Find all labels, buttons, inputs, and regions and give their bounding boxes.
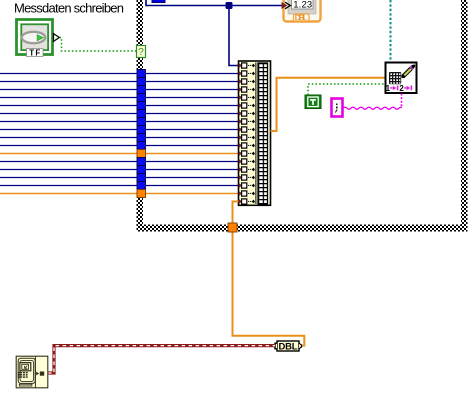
string wire vertical dashes: [401, 94, 403, 108]
blue I32 wire 2 from left edge through tunnel to build array: [0, 81, 239, 83]
TF output terminal arrow: [54, 34, 60, 42]
build array input row 18: [239, 199, 255, 204]
build array input row 5: [239, 95, 255, 100]
build array input row 13: [239, 159, 255, 164]
blue tunnel 8 on left loop border: [137, 126, 146, 134]
blue I32 wire 6 from left edge through tunnel to build array: [0, 113, 239, 115]
build array input row 12: [239, 151, 255, 156]
blue tunnel 3 on left loop border: [137, 86, 146, 94]
build array input row 4: [239, 87, 255, 92]
build array input row 10: [239, 135, 255, 140]
svg-text:1: 1: [386, 84, 391, 93]
svg-text:1.23: 1.23: [293, 0, 312, 11]
while loop left border: [137, 0, 144, 232]
blue I32 wire 15 from left edge through tunnel to build array: [0, 185, 239, 187]
build array node: [239, 61, 271, 205]
blue I32 wire 12 from left edge through tunnel to build array: [0, 161, 239, 163]
build array input row 9: [239, 127, 255, 132]
blue I32 wire 10 from left edge through tunnel to build array: [0, 145, 239, 147]
navy branch wire to build array row 1: [229, 6, 239, 66]
blue tunnel 14 on left loop border: [137, 174, 146, 182]
blue I32 wire 5 from left edge through tunnel to build array: [0, 105, 239, 107]
string wire (pink squiggle): [343, 107, 402, 109]
orange tunnel on bottom border: [228, 223, 237, 232]
svg-text:?: ?: [138, 47, 144, 58]
blue tunnel 2 on left loop border: [137, 78, 146, 86]
blue tunnel 15 on left loop border: [137, 182, 146, 190]
blue tunnel 6 on left loop border: [137, 110, 146, 118]
numeric indicator 1.23 DBL: [282, 0, 321, 23]
blue tunnel 7 on left loop border: [137, 118, 146, 126]
orange tunnel 16 on left loop border: [137, 190, 146, 198]
build array input row 6: [239, 103, 255, 108]
build array input row 15: [239, 175, 255, 180]
svg-text:TF: TF: [29, 48, 40, 57]
svg-text:DBL: DBL: [279, 341, 298, 352]
blue I32 wire 8 from left edge through tunnel to build array: [0, 129, 239, 131]
build array input row 2: [239, 71, 255, 76]
orange DBL wire 16 from left edge through tunnel to build array: [0, 193, 239, 195]
orange wire last row to bottom tunnel and DBL convert: [233, 202, 305, 346]
build array input row 7: [239, 111, 255, 116]
boolean dotted wire from T constant: [308, 84, 385, 95]
blue tunnel 4 on left loop border: [137, 94, 146, 102]
blue tunnel 1 on left loop border: [137, 70, 146, 78]
string constant ;: [332, 99, 343, 117]
blue I32 wire 3 from left edge through tunnel to build array: [0, 89, 239, 91]
blue I32 wire 14 from left edge through tunnel to build array: [0, 177, 239, 179]
build array input row 17: [239, 191, 255, 196]
blue I32 wire 13 from left edge through tunnel to build array: [0, 169, 239, 171]
blue tunnel 12 on left loop border: [137, 158, 146, 166]
blue I32 wire 1 from left edge through tunnel to build array: [0, 73, 239, 75]
blue tunnel 9 on left loop border: [137, 134, 146, 142]
while loop right border: [461, 0, 468, 232]
build array input row 14: [239, 167, 255, 172]
build array input row 8: [239, 119, 255, 124]
orange tunnel 11 on left loop border: [137, 150, 146, 158]
build array input row 3: [239, 79, 255, 84]
cut-off blue terminal top: [152, 0, 165, 3]
DBL conversion node: [275, 341, 302, 352]
blue tunnel 5 on left loop border: [137, 102, 146, 110]
teal dashed wire top: [390, 0, 392, 62]
orange wire build array output to write-to-spreadsheet: [271, 78, 386, 131]
wire junction: [226, 2, 233, 9]
boolean wire (dotted green) TF to ? tunnel: [60, 38, 137, 52]
DAQmx task wire (red dashed): [48, 346, 275, 373]
DAQ instrument icon: [16, 356, 48, 388]
blue I32 wire 9 from left edge through tunnel to build array: [0, 137, 239, 139]
blue I32 wire 4 from left edge through tunnel to build array: [0, 97, 239, 99]
svg-text:DBL: DBL: [295, 14, 308, 23]
write to spreadsheet file icon: [386, 63, 417, 94]
build array input row 16: [239, 183, 255, 188]
blue tunnel 13 on left loop border: [137, 166, 146, 174]
build array input row 11: [239, 143, 255, 148]
build array input row 1: [239, 63, 255, 68]
blue tunnel 10 on left loop border: [137, 142, 146, 150]
orange DBL wire 11 from left edge through tunnel to build array: [0, 153, 239, 155]
svg-text:Messdaten schreiben: Messdaten schreiben: [14, 1, 124, 16]
while loop bottom border: [137, 225, 468, 232]
boolean constant T: [305, 95, 321, 109]
svg-text:2: 2: [399, 84, 404, 93]
conditional ? tunnel on left border: [137, 46, 146, 59]
blue I32 wire 7 from left edge through tunnel to build array: [0, 121, 239, 123]
boolean terminal TF (Messdaten schreiben): [17, 20, 53, 58]
navy wire from top to 1.23 indicator: [146, 0, 282, 6]
